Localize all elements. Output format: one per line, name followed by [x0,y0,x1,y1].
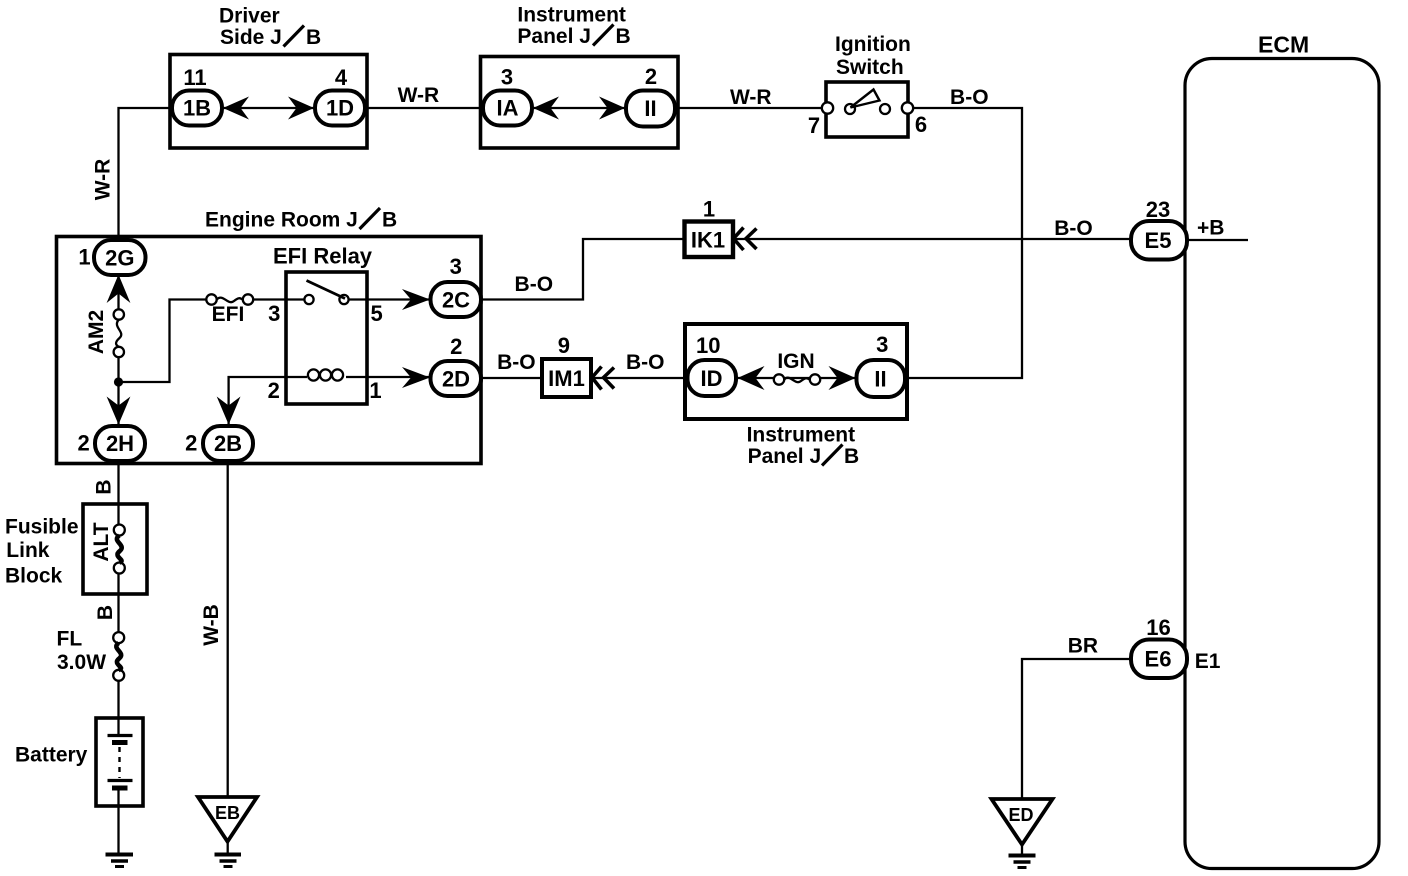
svg-text:ALT: ALT [90,522,113,561]
svg-text:Battery: Battery [15,744,88,767]
svg-text:Driver: Driver [219,5,280,28]
wire ED apex to ground [1021,845,1023,856]
fusible link ALT [114,525,125,574]
wire relay coil pin 1 to 2D [346,376,431,378]
wire B-O IM1 to ID [591,377,688,379]
svg-text:2: 2 [645,64,657,89]
connector E6 pin 16 [1131,615,1187,678]
connector II pin 2 [626,64,675,127]
label Ignition Switch [835,33,911,79]
svg-text:+B: +B [1197,217,1224,240]
svg-text:B: B [93,479,116,494]
label Instrument Panel J/B (bottom) [747,424,860,469]
battery top long plate [108,734,133,737]
label Instrument Panel J/B (top) [517,4,630,49]
svg-text:23: 23 [1146,197,1170,222]
svg-text:1D: 1D [326,96,354,121]
svg-text:ID: ID [701,366,723,391]
svg-text:II: II [644,96,656,121]
svg-text:B: B [844,445,859,468]
wire EB apex to ground [227,842,229,855]
svg-text:Switch: Switch [836,56,904,79]
wire 1B to 1D inside Driver J/B [222,107,315,109]
arrow right before 2D [402,367,430,388]
svg-text:3: 3 [876,332,888,357]
svg-text:IA: IA [497,96,519,121]
svg-text:11: 11 [183,65,206,90]
svg-text:IM1: IM1 [548,366,585,391]
svg-text:B: B [382,209,397,232]
svg-text:EB: EB [215,803,240,823]
fuse IGN [774,374,820,384]
svg-text:E1: E1 [1195,650,1221,673]
svg-text:ECM: ECM [1258,32,1309,58]
svg-text:2G: 2G [105,246,134,271]
connector 1B pin 11 [172,65,222,126]
svg-text:AM2: AM2 [85,310,108,354]
wire B-O 2D to IM1 [481,377,542,379]
double chevron arrow at IM1 [592,367,614,390]
connector 2C pin 3 [431,254,482,317]
wire main battery feed 2G to AM2 [117,270,119,310]
svg-text:1: 1 [369,378,381,403]
svg-text:6: 6 [915,112,927,137]
svg-text:Engine Room J: Engine Room J [205,209,358,232]
fusible link FL 3.0W [113,632,124,681]
label Engine Room J/B [205,208,397,232]
connector II pin 3 [857,332,906,397]
svg-text:B: B [616,25,631,48]
battery bottom long plate [108,779,133,782]
relay contact left [304,295,313,304]
svg-text:2C: 2C [442,288,470,313]
svg-text:5: 5 [370,301,382,326]
svg-text:Panel J: Panel J [748,445,822,468]
wire B-O ignition switch pin 6 down to instrument panel II [905,108,1022,378]
svg-text:1: 1 [703,197,715,222]
wire relay pin 5 to 2C [348,298,431,300]
connector E5 pin 23 [1131,197,1187,260]
svg-text:B-O: B-O [497,351,536,374]
label Fusible Link Block [5,516,79,588]
fuse AM2 [114,309,124,357]
arrow up below 2G [107,275,131,304]
wire junction to EFI fuse riser [119,300,207,383]
ground connector ED triangle [992,799,1053,845]
wire W-B 2B down to EB [227,461,229,799]
Instrument Panel J/B box (bottom) [685,324,907,419]
svg-text:B: B [306,26,321,49]
wire IA to II inside Instrument Panel J/B [532,107,626,109]
svg-text:2B: 2B [214,431,242,456]
wire AM2 to 2H through junction [117,357,119,427]
switch terminal pin 6 [902,102,913,113]
arrow left after ID [738,366,765,390]
svg-text:Instrument: Instrument [517,4,626,27]
svg-text:B-O: B-O [950,86,989,109]
svg-text:4: 4 [335,65,348,90]
ground below ED [1009,856,1036,868]
EFI Relay box [286,272,367,404]
wire 2B riser to relay coil pin 2 [229,377,307,426]
arrow left between IA and II [533,97,559,120]
svg-text:Link: Link [6,539,49,562]
svg-text:Side J: Side J [220,26,282,49]
Ignition Switch box [826,82,908,137]
svg-text:ED: ED [1008,805,1033,825]
wire B-O 2C up to IK1 [481,239,685,300]
arrow down above 2H [107,397,131,425]
svg-text:1: 1 [78,244,90,269]
arrow left between 1B and 1D [223,97,249,120]
svg-text:2D: 2D [442,367,470,392]
wire +B inside ECM from E5 [1187,239,1248,241]
wire BR E6 to ED ground drop [1022,659,1131,798]
arrow right between IA and II [599,97,625,120]
svg-text:B-O: B-O [515,273,554,296]
Fusible Link Block box [83,504,147,594]
arrow right before II [829,366,856,390]
connector 2B pin 2 [185,426,253,461]
svg-text:2H: 2H [106,431,134,456]
switch inner contact right [880,104,890,114]
Driver Side J/B box [170,55,367,149]
wire EFI fuse to relay contact [254,298,306,300]
wire W-R from node down-left to 1B [119,108,173,244]
svg-text:3.0W: 3.0W [57,651,106,674]
svg-text:3: 3 [501,65,513,90]
relay switch lever [307,281,346,299]
battery top short plate [112,740,128,745]
ECM box [1185,59,1379,869]
double chevron arrow at IK1 [734,228,757,251]
wire B-O IK1 to E5 [731,238,1131,240]
junction node below AM2 [114,377,123,386]
switch inner contact left [845,104,855,114]
ground below battery [106,855,134,867]
ground connector EB triangle [198,797,257,842]
battery dashed link [118,747,120,778]
svg-text:W-R: W-R [92,159,115,201]
svg-text:B-O: B-O [626,351,665,374]
wire FL to battery [117,680,119,735]
relay contact right [339,295,348,304]
svg-text:10: 10 [696,333,720,358]
svg-text:2: 2 [450,334,462,359]
wire B 2H down to ALT fusible link [117,461,119,525]
svg-text:2: 2 [185,431,197,456]
svg-text:Instrument: Instrument [747,424,856,447]
wire W-R 1D to IA [365,107,483,109]
connector ID pin 10 [688,333,737,396]
connector 2D pin 2 [431,334,482,396]
Instrument Panel J/B box (top) [481,57,679,149]
svg-text:IK1: IK1 [691,228,725,253]
relay coil [308,369,343,380]
svg-text:Block: Block [5,565,63,588]
svg-text:Panel J: Panel J [517,25,591,48]
svg-text:EFI Relay: EFI Relay [273,244,373,269]
connector 2H pin 2 [77,426,145,461]
svg-text:W-R: W-R [730,86,772,109]
connector 1D pin 4 [315,65,365,126]
svg-text:2: 2 [77,431,89,456]
svg-text:16: 16 [1146,615,1170,640]
battery bottom short plate [112,786,128,791]
svg-text:EFI: EFI [212,303,245,326]
svg-text:7: 7 [808,113,820,138]
wire W-R II to ignition switch pin 7 [675,107,826,109]
Battery box [96,718,143,806]
svg-text:B: B [94,605,117,620]
connector IA pin 3 [483,65,532,126]
label FL 3.0W [57,628,107,675]
svg-text:W-R: W-R [398,84,440,107]
svg-text:B-O: B-O [1054,217,1093,240]
svg-text:W-B: W-B [200,604,223,646]
svg-text:Fusible: Fusible [5,516,79,539]
arrow right between 1B and 1D [288,97,314,120]
svg-text:3: 3 [450,254,462,279]
switch terminal pin 7 [822,102,833,113]
label Driver Side J/B [219,5,321,50]
svg-text:9: 9 [558,333,570,358]
svg-text:2: 2 [268,378,280,403]
svg-text:E5: E5 [1145,228,1172,253]
arrow down above 2B [217,397,241,425]
svg-text:II: II [874,367,886,392]
arrow right before 2C [402,289,430,310]
Engine Room J/B box [57,237,482,464]
fuse EFI [206,294,253,304]
ground below EB [215,855,242,867]
wire ID to II inside instrument panel J/B [736,377,856,379]
junction connector IK1 pin 1 [685,197,734,258]
junction connector IM1 pin 9 [542,333,591,397]
svg-text:3: 3 [268,301,280,326]
svg-text:E6: E6 [1145,647,1172,672]
svg-text:1B: 1B [183,96,211,121]
connector 2G pin 1 [78,240,145,275]
svg-text:FL: FL [57,628,83,651]
wire B ALT to FL 3.0W [117,573,119,633]
switch lever blade [851,90,880,108]
svg-text:Ignition: Ignition [835,33,911,56]
svg-text:IGN: IGN [777,350,814,373]
wire battery to ground [117,789,119,853]
svg-text:BR: BR [1068,635,1098,658]
